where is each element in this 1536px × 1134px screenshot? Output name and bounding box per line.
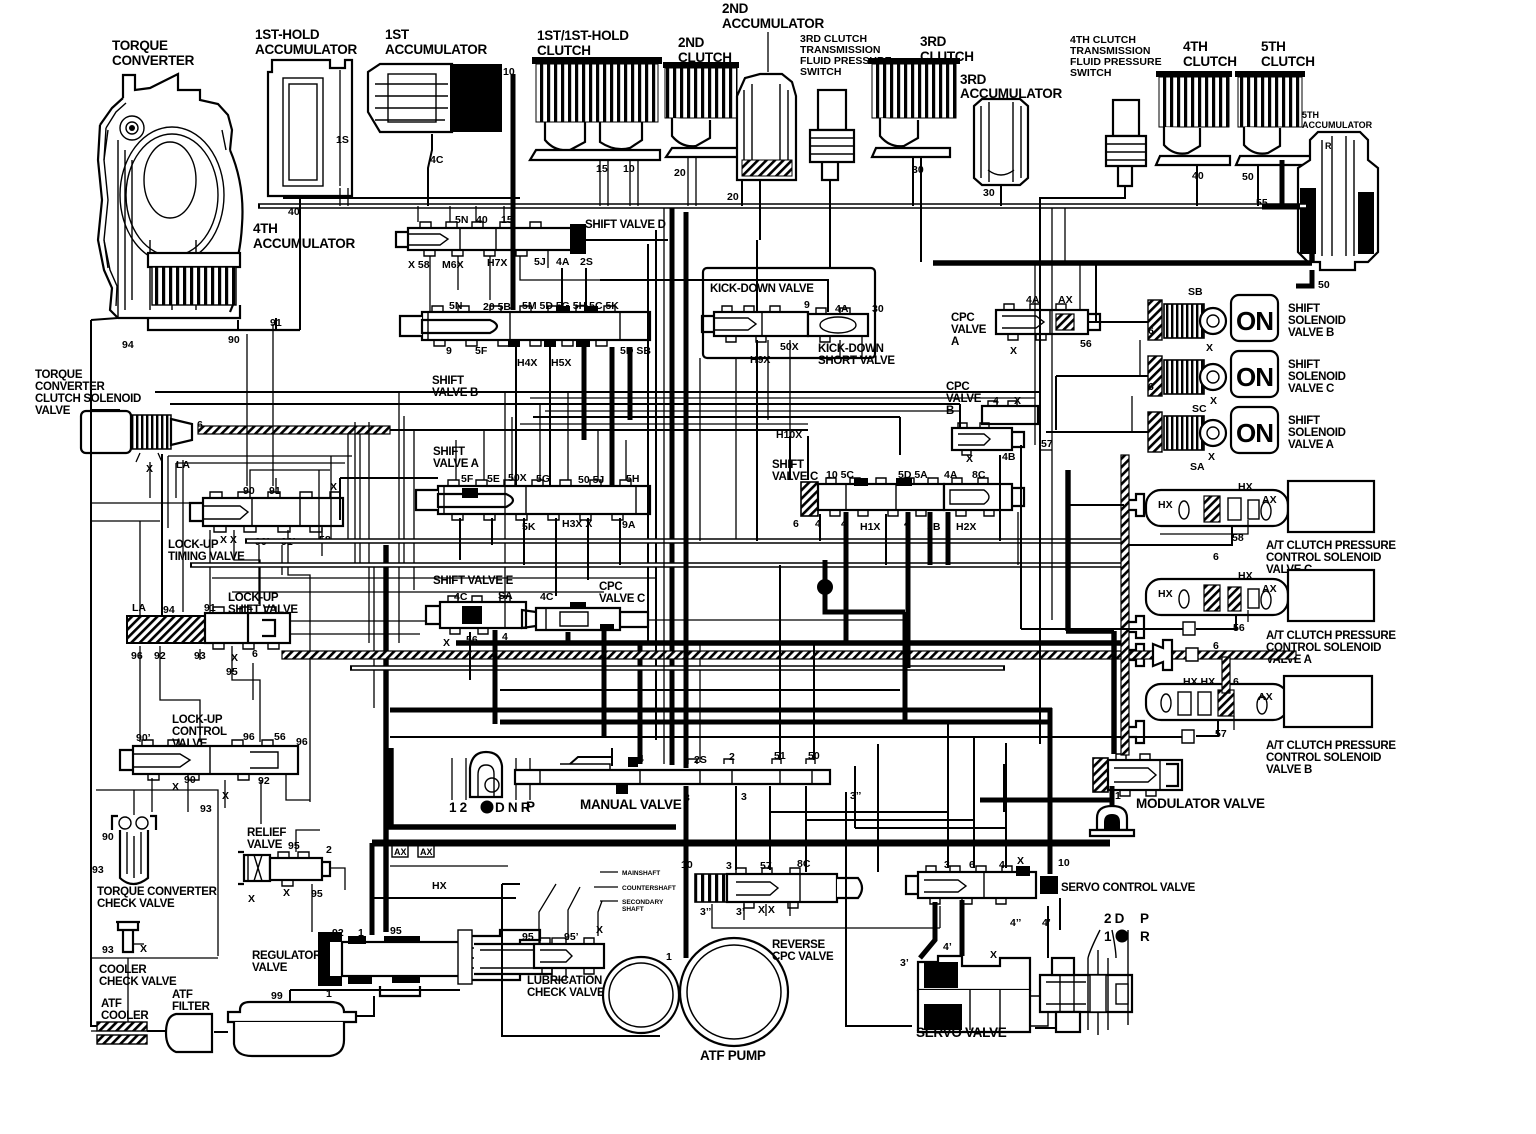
wire 30 drop 3rd clutch <box>913 157 921 262</box>
wire horizontal x648-905 y620 <box>648 619 905 621</box>
heat exchanger ATF cooler <box>97 1022 147 1044</box>
wire shift valve A bottom drops <box>460 518 620 596</box>
indicator ON (shift solenoid valve C) <box>1231 351 1278 397</box>
svg-text:CPC: CPC <box>599 581 622 593</box>
wire y417 bus <box>533 417 900 455</box>
svg-text:ACCUMULATOR: ACCUMULATOR <box>722 16 824 31</box>
svg-text:CONVERTER: CONVERTER <box>112 53 195 68</box>
wire lock-up timing to shift links <box>210 470 330 640</box>
svg-text:H4X: H4X <box>517 357 537 369</box>
svg-text:6: 6 <box>252 648 258 660</box>
svg-text:ACCUMULATOR: ACCUMULATOR <box>385 42 487 57</box>
clutch 4TH pack <box>1156 71 1232 165</box>
wire 57 left drop <box>1040 449 1052 451</box>
svg-text:VALVE C: VALVE C <box>1288 383 1334 395</box>
svg-text:93: 93 <box>92 864 104 876</box>
svg-text:6: 6 <box>793 518 799 530</box>
svg-text:4B: 4B <box>1002 451 1016 463</box>
svg-text:3’: 3’ <box>900 957 909 969</box>
wire y565 bus <box>190 562 1124 567</box>
switch 3RD clutch transmission fluid pressure <box>810 90 854 180</box>
wire A/T solenoid C link <box>1068 505 1232 545</box>
svg-text:MANUAL VALVE: MANUAL VALVE <box>580 797 682 812</box>
accumulator 2ND body <box>737 74 796 180</box>
wire A/T solenoid A link <box>1196 615 1236 629</box>
wire 3rd pressure switch stem <box>829 180 831 268</box>
svg-text:20: 20 <box>727 191 739 203</box>
check valve cooler <box>116 922 144 952</box>
svg-text:5F: 5F <box>475 345 488 357</box>
svg-text:LUBRICATION: LUBRICATION <box>527 975 602 987</box>
wire shift valve E X drop <box>469 632 471 680</box>
svg-text:HX: HX <box>1238 481 1253 493</box>
wire y411 bus <box>545 410 960 412</box>
indicator ON (shift solenoid valve A) <box>1231 407 1278 453</box>
svg-text:AX: AX <box>1262 494 1277 506</box>
svg-text:5M 5D 5G 5H 5C 5K: 5M 5D 5G 5H 5C 5K <box>522 300 619 312</box>
solenoid A/T clutch pressure control valve B <box>1146 676 1372 727</box>
wire y430 to trunk <box>390 429 808 431</box>
svg-text:5F: 5F <box>461 473 474 485</box>
wire central thick trunk x672 <box>670 208 675 765</box>
wire hatched channel TC solenoid output <box>198 426 390 434</box>
wire 15 10 drops <box>600 160 638 206</box>
svg-text:SHIFT: SHIFT <box>432 375 464 387</box>
svg-text:93: 93 <box>200 803 212 815</box>
svg-text:20: 20 <box>674 167 686 179</box>
wire TC solenoid feed <box>91 410 162 616</box>
valve shift B <box>400 306 650 347</box>
wire right thick trunk x1068 <box>1066 470 1114 754</box>
wire thick trunk x1050 to servo control valve <box>1048 708 1053 874</box>
wire lubrication bracket <box>539 884 602 944</box>
svg-text:2 D: 2 D <box>1104 911 1125 926</box>
wire regulator drop x372 <box>370 843 375 935</box>
wire vertical x1018 <box>1017 512 1019 565</box>
valve shift C <box>801 478 1024 516</box>
svg-text:50: 50 <box>1242 171 1254 183</box>
wire servo valve drops <box>920 900 962 958</box>
svg-text:1: 1 <box>358 927 364 939</box>
svg-text:93: 93 <box>102 944 114 956</box>
wire manual valve enclosure thick border <box>391 748 676 827</box>
svg-text:9A: 9A <box>622 519 636 531</box>
node AX boxed <box>392 845 408 857</box>
pump ATF small gear <box>603 957 679 1033</box>
clutch 3RD pack <box>868 58 960 157</box>
svg-text:SHIFT: SHIFT <box>1288 359 1320 371</box>
svg-text:SWITCH: SWITCH <box>1070 67 1111 79</box>
accumulator 1ST-HOLD body <box>268 60 352 196</box>
valve lock-up timing <box>190 492 343 532</box>
svg-text:2: 2 <box>729 751 735 763</box>
svg-text:5D 5A: 5D 5A <box>898 469 928 481</box>
svg-text:TORQUE: TORQUE <box>35 369 83 381</box>
svg-text:96: 96 <box>131 650 143 662</box>
clutch 5TH pack <box>1235 71 1316 165</box>
wire 2S port <box>699 643 701 762</box>
wire manual valve to pump thick <box>684 786 689 958</box>
wire vertical x700 <box>699 358 701 541</box>
svg-text:SHORT VALVE: SHORT VALVE <box>818 355 895 367</box>
manual valve selector detent <box>452 752 530 800</box>
wire 10 trunk from 1st accumulator <box>511 74 516 310</box>
svg-text:AX: AX <box>394 847 407 857</box>
svg-text:4A: 4A <box>556 256 570 268</box>
svg-text:6: 6 <box>1213 551 1219 563</box>
wire 55 thick to 5th accumulator <box>1262 160 1300 207</box>
wire 56 line left <box>1021 445 1183 629</box>
svg-text:CHECK VALVE: CHECK VALVE <box>99 976 177 988</box>
svg-text:COOLER: COOLER <box>99 964 147 976</box>
svg-text:VALVE C: VALVE C <box>599 593 645 605</box>
svg-text:2ND: 2ND <box>678 35 705 50</box>
svg-text:R: R <box>1325 141 1332 151</box>
wire 90 91 verticals to timing valve <box>247 324 273 486</box>
svg-text:RELIEF: RELIEF <box>247 827 286 839</box>
valve manual <box>515 757 830 794</box>
svg-text:TORQUE: TORQUE <box>112 38 168 53</box>
svg-text:X: X <box>283 887 290 899</box>
valve lock-up shift <box>127 607 290 649</box>
svg-text:57: 57 <box>1215 728 1227 740</box>
svg-text:VALVE: VALVE <box>252 962 288 974</box>
wire HX feeds right column <box>1160 520 1248 730</box>
svg-text:CPC: CPC <box>951 312 974 324</box>
wire shift valve D left ports up <box>418 206 504 222</box>
svg-text:LA: LA <box>132 602 146 614</box>
svg-text:X: X <box>966 453 973 465</box>
svg-text:40: 40 <box>476 214 488 226</box>
svg-text:CLUTCH: CLUTCH <box>1261 54 1315 69</box>
svg-text:A: A <box>951 336 959 348</box>
svg-text:SA: SA <box>1190 461 1205 473</box>
solenoid shift valve B assembly <box>1148 300 1226 340</box>
svg-text:4A: 4A <box>1026 294 1040 306</box>
solenoid valve: torque converter clutch <box>81 411 192 462</box>
valve CPC B <box>952 401 1038 455</box>
wire verticals x348 x360 <box>348 434 360 565</box>
svg-text:TORQUE CONVERTER: TORQUE CONVERTER <box>97 886 218 898</box>
svg-text:20 5B: 20 5B <box>483 301 511 313</box>
svg-text:1: 1 <box>1104 929 1112 944</box>
wire servo control valve links <box>770 722 1006 868</box>
wire right trunk x1052 <box>1051 263 1053 620</box>
svg-text:3RD: 3RD <box>920 34 947 49</box>
svg-text:AX: AX <box>1262 583 1277 595</box>
wire CPC A to solenoid links <box>1040 263 1096 322</box>
svg-text:4’: 4’ <box>943 941 952 953</box>
wire shift valve D to trunk <box>586 239 668 241</box>
node AX boxed 2 <box>418 845 434 857</box>
svg-text:CHECK VALVE: CHECK VALVE <box>97 898 175 910</box>
svg-text:94: 94 <box>163 604 175 616</box>
filter ATF <box>166 1014 212 1052</box>
svg-text:SHIFT: SHIFT <box>772 459 804 471</box>
check valve torque converter <box>112 816 156 884</box>
svg-text:VALVE A: VALVE A <box>1288 439 1334 451</box>
wire servo area enclosure <box>846 792 1056 1028</box>
solenoid shift valve C assembly <box>1148 356 1226 396</box>
svg-text:5G: 5G <box>536 473 550 485</box>
svg-text:9: 9 <box>446 345 452 357</box>
svg-text:10 5C: 10 5C <box>826 469 854 481</box>
clutch 1ST/1ST-HOLD pack <box>530 57 662 160</box>
wire verticals lock-up region <box>259 392 414 708</box>
wire bus y690 <box>500 689 900 691</box>
fitting junction (row B lower) <box>1124 721 1144 743</box>
clutch 2ND pack <box>663 62 740 157</box>
valve CPC C <box>522 591 648 631</box>
svg-text:4A: 4A <box>835 303 849 315</box>
wire vertical x686 <box>684 212 689 768</box>
svg-text:HX: HX <box>432 880 447 892</box>
wire ticks bus to bus <box>1052 208 1065 263</box>
wire blob drop <box>825 560 905 722</box>
svg-text:SB: SB <box>1188 286 1203 298</box>
valve shift A <box>416 480 650 520</box>
wire lower-left enclosure <box>502 884 660 1036</box>
wire 40 drop from 1st-hold accumulator <box>283 196 520 206</box>
fitting on hatch bus <box>1153 640 1172 670</box>
actuator servo valve <box>918 956 1048 1032</box>
svg-text:SHIFT VALVE E: SHIFT VALVE E <box>433 575 514 587</box>
svg-text:95: 95 <box>288 840 300 852</box>
torque converter body <box>98 74 243 318</box>
svg-text:A/T CLUTCH PRESSURE: A/T CLUTCH PRESSURE <box>1266 740 1396 752</box>
svg-text:SHIFT: SHIFT <box>1288 415 1320 427</box>
wire main top bus <box>258 203 1308 208</box>
wire 4th pressure switch stem <box>1040 186 1125 206</box>
wire to shaft labels <box>594 872 618 901</box>
wire box around TC check valve <box>91 790 218 958</box>
svg-text:AX: AX <box>1258 691 1273 703</box>
svg-text:5N: 5N <box>449 300 462 312</box>
wire 20 drop 2nd clutch <box>688 157 696 206</box>
svg-text:X: X <box>172 781 179 793</box>
svg-text:50: 50 <box>1318 279 1330 291</box>
svg-text:R: R <box>1140 929 1150 944</box>
svg-text:6: 6 <box>1148 381 1154 393</box>
svg-text:ACCUMULATOR: ACCUMULATOR <box>1302 120 1373 130</box>
check valve lubrication <box>534 938 604 974</box>
solenoid A/T clutch pressure control valve A <box>1146 570 1374 621</box>
svg-text:X: X <box>248 893 255 905</box>
svg-text:96: 96 <box>243 731 255 743</box>
svg-text:6: 6 <box>1148 325 1154 337</box>
wire shift valve E bottoms thick <box>493 630 498 724</box>
wire 4 port thick <box>638 643 643 764</box>
fitting 56 line <box>1183 622 1195 635</box>
fitting 57 line <box>1182 730 1194 743</box>
svg-text:REGULATOR: REGULATOR <box>252 950 322 962</box>
svg-text:SHIFT: SHIFT <box>433 446 465 458</box>
svg-text:HX: HX <box>1158 499 1173 511</box>
wire y404 bus <box>170 404 960 428</box>
svg-text:M6X: M6X <box>442 259 464 271</box>
svg-text:SHIFT VALVE D: SHIFT VALVE D <box>585 219 666 231</box>
valve modulator bell <box>1090 806 1134 836</box>
svg-text:5N: 5N <box>455 214 468 226</box>
svg-text:2: 2 <box>326 844 332 856</box>
wire shift valve A top drops <box>456 392 626 480</box>
svg-text:90: 90 <box>243 485 255 497</box>
accumulator 3RD body <box>974 99 1028 185</box>
svg-text:5J: 5J <box>534 256 546 268</box>
valve lock-up control <box>120 740 298 780</box>
wire filter to strainer <box>214 1031 228 1033</box>
wire bottom thick bus y843 <box>372 840 1110 847</box>
wire lock-up shift valve bottoms <box>140 646 260 742</box>
wire shift valve D lower ports <box>430 250 600 312</box>
svg-text:SHAFT: SHAFT <box>622 906 644 913</box>
svg-text:90: 90 <box>184 774 196 786</box>
svg-text:96: 96 <box>296 736 308 748</box>
valve servo control <box>906 866 1036 904</box>
wire solenoid A feed <box>1046 431 1148 433</box>
accumulator 1ST body <box>368 64 502 132</box>
leader 2nd accumulator <box>767 32 769 72</box>
svg-text:LOCK-UP: LOCK-UP <box>228 592 279 604</box>
wire thick right bus y262 <box>933 240 1312 263</box>
svg-text:MAINSHAFT: MAINSHAFT <box>622 870 660 877</box>
svg-text:2ND: 2ND <box>722 1 749 16</box>
svg-text:VALVE: VALVE <box>35 405 71 417</box>
svg-text:VALVE B: VALVE B <box>1288 327 1334 339</box>
svg-text:SOLENOID: SOLENOID <box>1288 427 1346 439</box>
svg-text:ATF PUMP: ATF PUMP <box>700 1048 766 1063</box>
wire vertical 50 port <box>813 643 815 760</box>
wire 2S 4A drops to shift valve B <box>562 268 586 306</box>
svg-text:ON: ON <box>1236 306 1273 336</box>
svg-text:99: 99 <box>271 990 283 1002</box>
wire horizontal y578 <box>212 577 656 579</box>
svg-text:1ST-HOLD: 1ST-HOLD <box>255 27 320 42</box>
svg-text:A/T CLUTCH PRESSURE: A/T CLUTCH PRESSURE <box>1266 630 1396 642</box>
wire relief valve links <box>296 830 345 932</box>
wire 30 drop 3rd accumulator <box>1000 185 1002 206</box>
wire solenoid C feed <box>1056 376 1148 430</box>
wire vertical x1035 <box>1034 263 1036 445</box>
wire vertical 51 port <box>779 565 781 760</box>
valve modulator <box>1093 754 1182 796</box>
svg-text:X: X <box>1206 342 1213 354</box>
wire cooler check valve link <box>91 958 128 1031</box>
wire shift valve C top H10X <box>790 436 808 480</box>
wire solenoid staircase <box>1132 340 1140 432</box>
wire trunk x640 from manual valve 4 <box>648 230 656 740</box>
svg-text:4: 4 <box>993 395 999 407</box>
svg-text:CLUTCH: CLUTCH <box>537 43 591 58</box>
svg-text:VALVE: VALVE <box>951 324 987 336</box>
svg-text:SWITCH: SWITCH <box>800 66 841 78</box>
wire vertical x664 <box>663 208 665 764</box>
svg-text:95: 95 <box>311 888 323 900</box>
svg-text:4C: 4C <box>430 154 444 166</box>
valve CPC A <box>996 304 1100 340</box>
svg-text:H1X: H1X <box>860 521 880 533</box>
svg-text:57: 57 <box>1041 438 1053 450</box>
fitting small on hatch bus <box>1186 648 1198 661</box>
indicator ON (shift solenoid valve B) <box>1231 295 1278 341</box>
wire A/T solenoid B link <box>1196 720 1218 736</box>
valve relief <box>238 852 330 886</box>
wire kick-down link y280 <box>600 240 828 312</box>
wire 4C from 1st accumulator <box>428 134 432 206</box>
svg-text:92: 92 <box>332 927 344 939</box>
torque converter clutch pack (4th accumulator region) <box>118 253 300 330</box>
svg-text:ACCUMULATOR: ACCUMULATOR <box>253 236 355 251</box>
wire hatch corner to solenoid B feed <box>1222 657 1230 693</box>
wire kick-down internal drops <box>736 336 862 541</box>
svg-text:1: 1 <box>666 951 672 963</box>
svg-text:SHIFT: SHIFT <box>1288 303 1320 315</box>
svg-text:SOLENOID: SOLENOID <box>1288 315 1346 327</box>
svg-text:CONTROL SOLENOID: CONTROL SOLENOID <box>1266 552 1381 564</box>
valve shift E <box>426 596 526 634</box>
svg-text:92: 92 <box>258 775 270 787</box>
wire 50 drop 5th clutch <box>1257 165 1259 206</box>
svg-text:1ST: 1ST <box>385 27 410 42</box>
svg-text:VALVE: VALVE <box>247 839 283 851</box>
wire vertical kick-down H9X drop <box>756 340 758 541</box>
svg-text:4’: 4’ <box>1042 917 1051 929</box>
svg-text:ON: ON <box>1236 418 1273 448</box>
svg-text:5TH: 5TH <box>1261 39 1286 54</box>
svg-text:X: X <box>1010 345 1017 357</box>
svg-text:CONTROL SOLENOID: CONTROL SOLENOID <box>1266 752 1381 764</box>
svg-text:4TH: 4TH <box>1183 39 1208 54</box>
svg-text:10: 10 <box>623 163 635 175</box>
wire lock-up to shift valve E links <box>290 621 426 634</box>
wire left trunk x91 <box>91 318 118 1026</box>
svg-text:1: 1 <box>1115 790 1121 802</box>
wire thick bus y722 <box>500 720 1049 725</box>
svg-text:2S: 2S <box>580 256 593 268</box>
wire LA line <box>150 460 183 612</box>
wire lock-up control valve bottoms <box>152 774 310 824</box>
svg-text:VALVE B: VALVE B <box>1266 764 1312 776</box>
svg-text:5D SB: 5D SB <box>620 345 651 357</box>
svg-text:5E: 5E <box>487 473 500 485</box>
svg-text:ATF: ATF <box>172 989 193 1001</box>
svg-text:H5X: H5X <box>551 357 571 369</box>
svg-text:ACCUMULATOR: ACCUMULATOR <box>255 42 357 57</box>
wire y398 bus <box>530 397 1035 399</box>
solenoid A/T clutch pressure control valve C <box>1146 481 1374 532</box>
svg-text:SOLENOID: SOLENOID <box>1288 371 1346 383</box>
wire regulator feed trunk x386 <box>383 545 388 932</box>
svg-text:4A: 4A <box>944 469 958 481</box>
wire right trunk x1080 <box>1079 263 1081 310</box>
wire y478 link <box>340 478 438 520</box>
svg-text:SECONDARY: SECONDARY <box>622 899 664 906</box>
svg-text:90’: 90’ <box>136 732 151 744</box>
svg-text:SERVO VALVE: SERVO VALVE <box>916 1025 1007 1040</box>
svg-text:4’’: 4’’ <box>1010 917 1021 929</box>
svg-text:CONVERTER: CONVERTER <box>35 381 105 393</box>
wire y898 link <box>372 897 516 899</box>
svg-text:10: 10 <box>1058 857 1070 869</box>
svg-text:95: 95 <box>522 931 534 943</box>
svg-text:95: 95 <box>390 925 402 937</box>
wire 1S drop <box>340 188 348 206</box>
svg-text:3’’: 3’’ <box>700 906 711 918</box>
valve shift D <box>396 222 586 256</box>
wire strainer to regulator zone <box>290 990 460 1016</box>
wire shift valve B bottom thick studs <box>584 347 630 486</box>
wire vertical 4A8C valve drop <box>946 512 951 565</box>
